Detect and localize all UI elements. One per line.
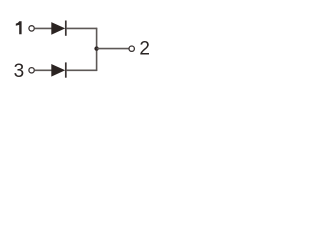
diode D1 triangle (anode) [51, 22, 65, 35]
svg-text:3: 3 [14, 61, 25, 82]
terminal circle pin 1 [29, 26, 34, 31]
wire D2 cathode to node [67, 69, 98, 71]
diode D1 cathode bar [65, 21, 67, 36]
diode D2 triangle (anode) [51, 64, 65, 77]
wire node to pin 2 [97, 48, 129, 50]
wire pin3 to diode D2 anode [35, 69, 52, 71]
terminal circle pin 3 [29, 68, 34, 73]
junction node dot [94, 46, 98, 50]
wire D1 cathode to node [67, 27, 98, 29]
svg-text:2: 2 [139, 39, 150, 60]
wire vertical bus joining D1 and D2 cathodes [96, 28, 98, 71]
wire pin1 to diode D1 anode [35, 27, 52, 29]
terminal circle pin 2 [129, 46, 134, 51]
pin label 1 (drawn glyph, Arial-style no foot) [16, 21, 22, 34]
diode D2 cathode bar [65, 62, 67, 77]
